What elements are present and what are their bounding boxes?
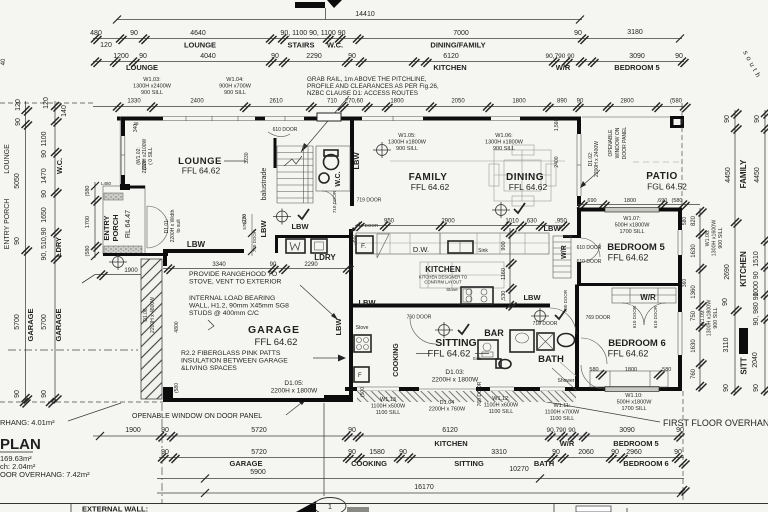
svg-text:W1.09:: W1.09: (700, 310, 706, 327)
svg-text:STUDS @ 400mm C/C: STUDS @ 400mm C/C (189, 310, 259, 317)
svg-text:BEDROOM 6: BEDROOM 6 (608, 338, 666, 349)
dining right wall (577, 117, 581, 135)
bath door arc (550, 308, 576, 334)
svg-text:ENTRY: ENTRY (102, 215, 111, 240)
svg-text:W/R: W/R (556, 63, 571, 72)
bed6 WR shelf (612, 288, 676, 303)
svg-text:W1.13: W1.13 (380, 397, 396, 403)
svg-text:90: 90 (723, 384, 730, 392)
svg-text:1300H x1600W: 1300H x1600W (712, 220, 718, 257)
ldry north wall (275, 235, 351, 238)
svg-text:1800: 1800 (625, 367, 637, 373)
svg-text:1100H x500W: 1100H x500W (371, 404, 406, 410)
svg-text:W1.04:: W1.04: (226, 77, 244, 83)
svg-text:W1.06:: W1.06: (495, 133, 513, 139)
svg-text:Sink: Sink (478, 248, 488, 254)
svg-text:610 DOOR: 610 DOOR (577, 259, 602, 265)
svg-text:580: 580 (589, 367, 598, 373)
svg-text:LBW: LBW (352, 152, 361, 170)
svg-text:GRAB RAIL, 1m ABOVE THE PITCHL: GRAB RAIL, 1m ABOVE THE PITCHLINE, (307, 76, 427, 83)
svg-text:&LIVING SPACES: &LIVING SPACES (181, 365, 237, 372)
north arrow stem (325, 8, 327, 20)
svg-text:1630: 1630 (691, 244, 697, 258)
wc partition (316, 146, 350, 191)
svg-text:GARAGE: GARAGE (230, 459, 263, 468)
north arrow triangle (327, 0, 342, 8)
island bench (420, 262, 504, 288)
porch upper slab (104, 193, 123, 200)
svg-text:90: 90 (753, 384, 760, 392)
svg-text:LOUNGE: LOUNGE (184, 41, 216, 50)
svg-text:270,60: 270,60 (345, 99, 364, 105)
bed5 door arcs (581, 238, 600, 262)
pantry shelf (377, 234, 389, 258)
svg-text:760: 760 (691, 368, 697, 379)
bedroom5/6 divider wall (577, 283, 681, 286)
svg-text:SITTING: SITTING (435, 337, 476, 349)
north arrow bar (295, 2, 325, 8)
svg-text:WINDOW ON: WINDOW ON (615, 127, 621, 158)
svg-text:5700: 5700 (14, 314, 21, 330)
svg-text:(580: (580 (671, 198, 682, 204)
svg-text:3230: 3230 (244, 152, 250, 163)
svg-text:900 SILL: 900 SILL (493, 146, 515, 152)
svg-text:RL 64.47: RL 64.47 (125, 210, 132, 238)
svg-text:OPENABLE: OPENABLE (608, 129, 614, 157)
svg-text:F: F (358, 373, 362, 379)
svg-text:L480: L480 (101, 181, 112, 186)
svg-text:GARAGE: GARAGE (26, 309, 35, 342)
svg-text:FGL 64.52: FGL 64.52 (647, 182, 687, 192)
svg-text:90: 90 (754, 115, 761, 123)
svg-text:LOUNGE: LOUNGE (126, 63, 158, 72)
svg-text:1300H x1800W: 1300H x1800W (485, 140, 524, 146)
svg-text:DOOR PANEL: DOOR PANEL (622, 127, 628, 160)
svg-text:3110: 3110 (723, 337, 730, 352)
dining table (489, 145, 556, 206)
dim row C texts (127, 99, 682, 105)
svg-text:890: 890 (557, 99, 568, 105)
svg-text:W1.08:: W1.08: (705, 230, 711, 247)
svg-text:,630: ,630 (525, 219, 537, 225)
svg-text:STAIRS: STAIRS (288, 41, 315, 50)
svg-text:EXTERNAL WALL:: EXTERNAL WALL: (82, 505, 148, 512)
svg-text:W.C.: W.C. (55, 158, 64, 174)
stair left wall (274, 138, 277, 168)
svg-text:710 DOOR: 710 DOOR (332, 190, 337, 213)
svg-text:2400: 2400 (190, 99, 204, 105)
svg-text:1800: 1800 (512, 99, 526, 105)
left dim line B (54, 101, 56, 402)
svg-text:1580: 1580 (369, 449, 385, 456)
svg-text:,950: ,950 (555, 219, 567, 225)
svg-text:W/R: W/R (560, 439, 575, 448)
svg-text:90: 90 (270, 262, 277, 268)
svg-text:balustrade: balustrade (261, 168, 268, 201)
svg-text:Stove: Stove (446, 287, 458, 292)
svg-text:5720: 5720 (251, 427, 267, 434)
svg-text:(580: (580 (85, 245, 91, 256)
svg-text:90: 90 (724, 115, 731, 123)
svg-text:,580: ,580 (661, 367, 672, 373)
svg-text:1160: 1160 (501, 268, 507, 280)
hall doorway dim line (251, 214, 253, 256)
svg-text:(500: (500 (360, 387, 366, 397)
svg-text:900 SILL: 900 SILL (141, 90, 163, 96)
family ref line (390, 160, 565, 162)
svg-text:W1.12:: W1.12: (492, 396, 510, 402)
garage insulated west wall hatch (141, 259, 162, 399)
svg-text:1700 SILL: 1700 SILL (619, 229, 644, 235)
svg-text:7000: 7000 (453, 30, 469, 37)
svg-text:2290: 2290 (304, 262, 318, 268)
svg-text:3180: 3180 (627, 29, 643, 36)
top wall solid segments (117, 117, 163, 121)
svg-text:W1.10:: W1.10: (625, 393, 643, 399)
svg-text:3090: 3090 (619, 427, 635, 434)
svg-text:W/R: W/R (640, 293, 656, 302)
svg-text:90, 980 90: 90, 980 90 (753, 292, 760, 325)
svg-text:1100 SILL: 1100 SILL (489, 409, 514, 415)
svg-text:PORCH: PORCH (111, 214, 120, 241)
upper WR shelving (553, 236, 571, 278)
svg-text:BEDROOM 6: BEDROOM 6 (623, 459, 668, 468)
svg-text:1100 SILL: 1100 SILL (550, 416, 575, 422)
bed6 bed (590, 371, 668, 387)
svg-text:D1.03:: D1.03: (445, 369, 464, 376)
svg-text:BEDROOM 5: BEDROOM 5 (607, 242, 665, 253)
svg-text:1630: 1630 (691, 339, 697, 353)
svg-text:500H x1800W: 500H x1800W (615, 223, 651, 229)
svg-text:769 DOOR: 769 DOOR (586, 315, 611, 321)
svg-text:3340: 3340 (212, 262, 226, 268)
patio dashed edge (681, 103, 683, 204)
svg-text:900H x700W: 900H x700W (219, 84, 252, 90)
svg-text:4800: 4800 (174, 321, 180, 332)
svg-text:BATH: BATH (538, 354, 564, 365)
dim line row B (93, 61, 684, 63)
svg-text:2610: 2610 (269, 99, 283, 105)
svg-text:LBW: LBW (187, 240, 206, 249)
svg-text:900: 900 (501, 241, 507, 250)
svg-text:2400: 2400 (554, 156, 560, 167)
kitchen-sitting door arc (410, 318, 436, 344)
svg-text:1900: 1900 (124, 268, 138, 274)
svg-text:710 DOOR: 710 DOOR (533, 321, 558, 327)
svg-text:610 DOOR: 610 DOOR (632, 305, 637, 328)
bedroom5 top wall (577, 208, 605, 212)
wc basin (319, 173, 329, 183)
svg-text:CONFIRM LAYOUT: CONFIRM LAYOUT (424, 280, 462, 285)
right dim line outer (764, 110, 766, 394)
window label W1.03 (133, 77, 172, 96)
svg-text:4040: 4040 (200, 53, 216, 60)
svg-text:2060: 2060 (578, 449, 594, 456)
svg-text:2690: 2690 (724, 264, 731, 280)
svg-text:(220: (220 (142, 160, 148, 170)
svg-text:719 DOOR: 719 DOOR (357, 198, 382, 204)
svg-text:FFL 64.62: FFL 64.62 (608, 253, 649, 263)
shower corner lines (552, 368, 576, 390)
svg-text:1330: 1330 (127, 99, 141, 105)
garage centreline dashed (8, 349, 138, 351)
svg-text:NZBC CLAUSE D1: ACCESS ROUTES: NZBC CLAUSE D1: ACCESS ROUTES (307, 90, 418, 97)
svg-text:900 SILL: 900 SILL (713, 307, 719, 328)
svg-text:W/R: W/R (561, 245, 568, 259)
svg-text:south: south (741, 50, 762, 82)
svg-text:2200H x 1800W: 2200H x 1800W (432, 377, 479, 384)
svg-text:14410: 14410 (355, 11, 375, 18)
svg-text:WALL, H1.2, 90mm X45mm SG8: WALL, H1.2, 90mm X45mm SG8 (189, 303, 289, 310)
lounge LBW wall (163, 249, 244, 253)
svg-text:D1.06: D1.06 (143, 308, 149, 322)
grab rail leader (301, 96, 349, 152)
svg-text:INTERNAL LOAD BEARING: INTERNAL LOAD BEARING (189, 295, 275, 302)
kitchen vertical dim chain (509, 228, 511, 308)
stairs treads (277, 146, 313, 203)
ldry tub (311, 239, 327, 253)
svg-text:,530: ,530 (501, 291, 507, 302)
svg-text:950: 950 (384, 219, 395, 225)
svg-text:LDRY: LDRY (314, 253, 336, 262)
svg-text:STOVE, VENT TO EXTERIOR: STOVE, VENT TO EXTERIOR (189, 279, 282, 286)
svg-text:360: 360 (682, 279, 688, 288)
svg-text:RHANG: 4.01m²: RHANG: 4.01m² (0, 418, 55, 427)
svg-text:6120: 6120 (442, 427, 458, 434)
svg-text:D.W.: D.W. (413, 245, 429, 254)
svg-text:1700: 1700 (85, 216, 91, 228)
svg-text:2040: 2040 (752, 352, 759, 368)
svg-text:2900: 2900 (441, 219, 455, 225)
svg-text:610 DOOR: 610 DOOR (577, 245, 602, 251)
stair break squiggle (284, 156, 302, 166)
fridge box (356, 236, 373, 253)
svg-text:2200H x 760W: 2200H x 760W (429, 407, 466, 413)
svg-text:INSULATION BETWEEN GARAGE: INSULATION BETWEEN GARAGE (181, 358, 288, 365)
svg-text:90,790 90: 90,790 90 (547, 427, 576, 434)
svg-text:760 DOOR: 760 DOOR (477, 381, 483, 406)
cooktop on LBW bench (461, 287, 493, 304)
svg-text:1700 SILL: 1700 SILL (621, 406, 646, 412)
svg-text:90,790 90: 90,790 90 (546, 53, 575, 60)
svg-text:90: 90 (130, 30, 138, 37)
porch south edge (103, 253, 168, 256)
svg-text:( 0 SILL: ( 0 SILL (148, 147, 154, 165)
ldry washer (286, 239, 305, 253)
footer table line (0, 503, 768, 505)
svg-text:690: 690 (587, 198, 596, 204)
svg-text:90: 90 (41, 390, 48, 398)
svg-text:W1.07:: W1.07: (623, 216, 641, 222)
stairs-kitchen wall upper (350, 120, 354, 206)
toilet bath (499, 360, 511, 369)
svg-text:1300H x1800W: 1300H x1800W (707, 300, 713, 337)
svg-text:10270: 10270 (509, 466, 529, 473)
svg-text:40: 40 (1, 58, 7, 65)
svg-text:90: 90 (722, 298, 729, 306)
svg-text:2800: 2800 (620, 99, 634, 105)
svg-text:4640: 4640 (190, 30, 206, 37)
kitchen-garage wall (349, 229, 353, 402)
dim line 14410 (117, 19, 582, 21)
south wall solid segments (345, 387, 357, 391)
svg-text:2200H x 4800W: 2200H x 4800W (150, 297, 156, 333)
svg-text:1100: 1100 (41, 131, 48, 146)
svg-text:120: 120 (100, 42, 112, 49)
svg-text:760 DOOR: 760 DOOR (407, 315, 432, 321)
patio bottom dim line (577, 204, 700, 206)
svg-text:Stove: Stove (356, 325, 369, 331)
kitchen sink (448, 241, 473, 253)
svg-text:W1.05:: W1.05: (398, 133, 416, 139)
svg-text:ENTRY PORCH: ENTRY PORCH (4, 199, 11, 250)
svg-text:,560: ,560 (351, 235, 357, 245)
vertical connectors (161, 403, 163, 503)
svg-text:4450: 4450 (754, 167, 761, 183)
bath vanity (510, 330, 534, 352)
bedroom5 west wall (577, 208, 581, 238)
svg-text:710: 710 (327, 99, 338, 105)
symbols circle cross (373, 142, 391, 158)
svg-text:2200H x 2400W: 2200H x 2400W (594, 141, 600, 177)
svg-text:PATIO: PATIO (646, 171, 678, 182)
svg-text:D1.05:: D1.05: (284, 380, 303, 387)
svg-text:SITTING: SITTING (454, 459, 484, 468)
svg-text:120: 120 (43, 97, 50, 109)
window label W1.09 rotated (700, 300, 719, 337)
svg-text:1010: 1010 (505, 219, 519, 225)
cooking fridge (354, 367, 369, 382)
svg-text:BEDROOM 5: BEDROOM 5 (613, 439, 658, 448)
svg-text:900 SILL: 900 SILL (396, 146, 418, 152)
svg-text:16170: 16170 (414, 484, 434, 491)
svg-text:900 SILL: 900 SILL (718, 227, 724, 248)
svg-text:FFL 64.62: FFL 64.62 (182, 166, 221, 176)
overhang leader (68, 403, 121, 421)
svg-text:BATH: BATH (534, 459, 554, 468)
svg-text:140: 140 (61, 105, 68, 117)
svg-text:DINING/FAMILY: DINING/FAMILY (430, 41, 485, 50)
patio post (670, 116, 684, 128)
east wall (678, 208, 682, 230)
svg-text:LBW: LBW (334, 318, 343, 336)
svg-text:1900: 1900 (125, 427, 141, 434)
svg-text:COOKING: COOKING (351, 459, 387, 468)
svg-text:90: 90 (14, 237, 21, 245)
entry double door arcs (147, 206, 168, 248)
window label W1.04 (219, 77, 252, 96)
bed6 WR door arcs (622, 303, 666, 325)
wc toilet (324, 155, 339, 170)
svg-text:610 DOOR: 610 DOOR (653, 305, 658, 328)
right dim chain inner (699, 208, 701, 390)
svg-text:1: 1 (328, 504, 332, 511)
sheet circle 1 (314, 498, 346, 512)
svg-text:LBW: LBW (291, 222, 309, 231)
porch outline (103, 186, 145, 254)
dim line row A (93, 38, 682, 40)
svg-text:FFL 64.62: FFL 64.62 (428, 349, 471, 360)
porch lower slab (104, 246, 142, 254)
svg-text:W.C.: W.C. (335, 171, 342, 186)
svg-text:5700: 5700 (41, 314, 48, 330)
top wall window bands (163, 116, 255, 121)
svg-text:Sink: Sink (473, 356, 483, 361)
dim line row C (0, 102, 93, 104)
left wall lounge (121, 117, 125, 137)
svg-text:610 DOOR: 610 DOOR (273, 127, 298, 133)
left dim line A (25, 101, 27, 402)
svg-text:KITCHEN: KITCHEN (739, 251, 748, 287)
svg-text:LBW: LBW (259, 220, 268, 238)
right dim line mid (734, 110, 736, 394)
overhang dashed line left (0, 401, 163, 403)
svg-text:480: 480 (90, 30, 102, 37)
checkmarks (298, 209, 309, 219)
svg-text:GARAGE: GARAGE (248, 324, 300, 336)
bed6 door arc (581, 365, 605, 389)
svg-text:to suit: to suit (176, 219, 182, 233)
grab rail note (307, 76, 439, 97)
svg-text:900 SILL: 900 SILL (224, 90, 246, 96)
svg-text:820: 820 (691, 215, 697, 226)
south wall windows (357, 387, 399, 391)
LBW mid wall (351, 304, 550, 308)
patio centre dashed (633, 161, 683, 163)
svg-text:LOUNGE: LOUNGE (4, 144, 11, 174)
svg-text:90: 90 (41, 190, 48, 198)
hall dim line (163, 268, 349, 270)
svg-text:PLAN: PLAN (0, 436, 41, 453)
svg-text:1100H x600W: 1100H x600W (484, 403, 519, 409)
svg-text:90, 510,90: 90, 510,90 (41, 227, 48, 260)
svg-text:W.C.: W.C. (327, 41, 343, 50)
svg-text:PROFILE AND CLEARANCES AS PER: PROFILE AND CLEARANCES AS PER Fig.26, (307, 83, 439, 90)
svg-text:90: 90 (139, 53, 147, 60)
svg-text:1300H x2400W: 1300H x2400W (133, 84, 172, 90)
svg-text:1650: 1650 (41, 207, 48, 223)
svg-text:FFL 64.62: FFL 64.62 (608, 349, 649, 359)
svg-text:1300H x1800W: 1300H x1800W (388, 140, 427, 146)
cooking stove (354, 335, 371, 352)
svg-text:COOKING: COOKING (393, 343, 400, 377)
stair landing window box (317, 113, 341, 121)
svg-text:(580: (580 (670, 99, 683, 105)
svg-text:740 DOOR: 740 DOOR (252, 229, 257, 252)
overhang hatch band (357, 391, 576, 402)
kitchen bench top (356, 233, 549, 254)
svg-text:KITCHEN: KITCHEN (434, 439, 467, 448)
svg-text:1470: 1470 (41, 168, 48, 184)
svg-text:4450: 4450 (725, 167, 732, 183)
wc door arc (322, 191, 336, 205)
svg-text:LBW: LBW (358, 298, 376, 307)
svg-text:(220: (220 (242, 214, 248, 224)
window label W1.08 rotated (705, 220, 724, 257)
svg-text:90: 90 (14, 390, 21, 398)
svg-text:90: 90 (15, 118, 22, 126)
dishwasher area (439, 233, 441, 254)
porch dim line (94, 182, 96, 258)
svg-text:3310: 3310 (491, 449, 507, 456)
svg-text:Shower: Shower (558, 378, 575, 384)
svg-text:LDRY: LDRY (54, 237, 63, 257)
svg-text:D1.04: D1.04 (440, 400, 455, 406)
svg-text:2960: 2960 (626, 449, 642, 456)
porch wall corner (120, 184, 130, 190)
porch 1900 dim (95, 274, 141, 276)
wall legend black bar (739, 328, 748, 354)
